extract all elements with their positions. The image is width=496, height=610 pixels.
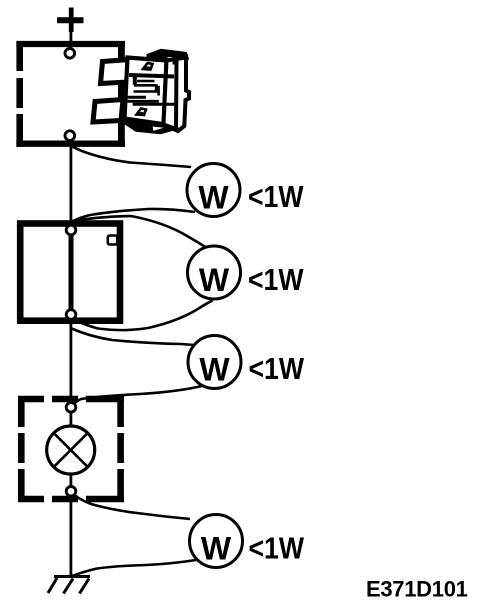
wattmeter W4 bbox=[190, 515, 243, 568]
meter M2 bottom lead bbox=[72, 301, 213, 331]
switch bottom terminal bbox=[66, 310, 76, 320]
fuse cap top black band bbox=[147, 49, 189, 61]
fuse element bottom horizontal bbox=[134, 90, 159, 93]
fuse element top arm bbox=[137, 80, 155, 83]
fuse cap mid vertical line bbox=[174, 60, 179, 130]
fuse bottom black band bbox=[123, 117, 179, 134]
meter M4 bottom lead bbox=[72, 560, 196, 576]
svg-text:W: W bbox=[199, 352, 230, 388]
fuse bottom white wedge bbox=[152, 126, 167, 132]
blade fuse icon bbox=[93, 49, 189, 133]
fuse upper blade tab bbox=[101, 60, 131, 84]
fuse body front face bbox=[125, 58, 167, 125]
svg-text:<1W: <1W bbox=[249, 531, 305, 566]
meter M1 bottom lead bbox=[72, 209, 196, 222]
ground symbol bbox=[48, 577, 90, 594]
fuse top small mark slit bbox=[145, 66, 151, 69]
switch box bbox=[20, 224, 120, 321]
fuse lower band full bbox=[133, 103, 175, 106]
wire from + down to fuse box bbox=[70, 30, 73, 49]
lamp box (dashed) top edge bbox=[18, 396, 124, 403]
switch top terminal bbox=[66, 225, 76, 235]
svg-text:<1W: <1W bbox=[248, 179, 304, 214]
fuse end cap side bbox=[164, 58, 190, 132]
lamp bulb bbox=[47, 426, 95, 474]
lamp box right edge bbox=[117, 396, 124, 502]
meter M3 bottom lead bbox=[72, 386, 205, 408]
fuse box (dashed) top edge bbox=[16, 41, 125, 47]
switch connector square bbox=[108, 236, 117, 245]
lamp top terminal bbox=[66, 403, 76, 413]
fuse box top terminal bbox=[65, 49, 75, 59]
fuse cap notch right tick bbox=[173, 57, 176, 65]
svg-text:W: W bbox=[199, 262, 230, 298]
meter M3 top lead bbox=[72, 329, 195, 346]
fuse element left vertical bbox=[133, 77, 137, 85]
fuse element right vertical bbox=[155, 85, 158, 92]
meter M1 top lead bbox=[72, 146, 192, 167]
svg-text:<1W: <1W bbox=[248, 262, 304, 297]
fuse bottom small mark bbox=[137, 109, 147, 116]
fuse top window divider band bbox=[129, 75, 174, 77]
fuse element right lower vertical bbox=[157, 86, 160, 96]
svg-text:E371D101: E371D101 bbox=[366, 577, 468, 602]
fuse box right edge bbox=[118, 41, 125, 147]
svg-text:W: W bbox=[198, 180, 229, 216]
battery positive terminal + bbox=[57, 8, 84, 33]
wattmeter W1 bbox=[187, 164, 240, 217]
wattmeter W2 bbox=[188, 246, 241, 299]
fuse lower blade tab bbox=[93, 100, 123, 123]
switch element bbox=[69, 230, 74, 315]
fuse element mid horizontal bbox=[134, 84, 157, 87]
fuse lower band short bbox=[123, 96, 146, 99]
fuse box bottom edge bbox=[16, 141, 125, 147]
fuse bottom small mark slit bbox=[138, 112, 144, 115]
lamp box bottom edge bbox=[18, 496, 124, 503]
svg-text:<1W: <1W bbox=[249, 351, 305, 386]
meter M4 top lead bbox=[72, 493, 191, 520]
fuse lower band mid bbox=[127, 100, 159, 103]
svg-text:W: W bbox=[201, 531, 232, 567]
meter M2 top lead bbox=[73, 216, 213, 252]
main wire fuse box bottom to ground bbox=[70, 131, 73, 578]
fuse box bottom terminal bbox=[65, 131, 75, 141]
lamp bottom terminal bbox=[66, 487, 76, 497]
fuse top small mark bbox=[143, 63, 153, 70]
lamp box left edge bbox=[18, 396, 25, 502]
wattmeter W3 bbox=[188, 336, 241, 389]
fuse box left edge bbox=[16, 41, 23, 147]
